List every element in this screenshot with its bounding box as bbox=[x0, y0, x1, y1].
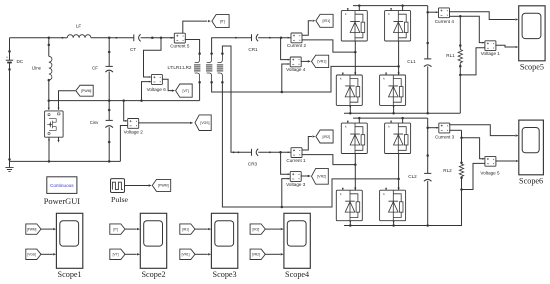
bridge2 DC- rail bbox=[349, 221, 351, 226]
wire winding1 bottom to mid wire bbox=[199, 82, 201, 100]
diode D3 bbox=[336, 73, 362, 106]
current measurement Current 5 bbox=[170, 33, 190, 48]
svg-text:LT:LR1:LR2: LT:LR1:LR2 bbox=[168, 65, 192, 70]
wire Voltage 4 - to return bbox=[282, 64, 290, 92]
wire [VR1] to Scope3 bbox=[195, 253, 208, 255]
voltage measurement Voltage 4 bbox=[286, 57, 306, 72]
wire Current 5 out to transformer winding 1 bbox=[185, 40, 200, 54]
diode D6 bbox=[385, 121, 411, 154]
svg-text:[VR1]: [VR1] bbox=[182, 252, 190, 256]
inductor LF bbox=[67, 24, 91, 38]
bridge1 DC- rail bbox=[349, 105, 351, 113]
svg-text:[VGS]: [VGS] bbox=[27, 252, 36, 256]
svg-text:[IR1]: [IR1] bbox=[323, 19, 331, 23]
capacitor CT bbox=[130, 34, 141, 52]
diode D4 bbox=[380, 73, 406, 106]
svg-text:Current 5: Current 5 bbox=[170, 43, 190, 48]
Goto tag [VR1] bbox=[312, 55, 329, 67]
diode D5 bbox=[341, 121, 367, 154]
wire Current 5 signal to [IT] bbox=[183, 21, 207, 33]
svg-text:CL1: CL1 bbox=[407, 59, 416, 64]
wire Current 2 signal to [IR1] bbox=[302, 21, 312, 36]
Goto tag [VR2] bbox=[312, 168, 329, 184]
voltage measurement Voltage 5 bbox=[480, 156, 500, 175]
svg-text:Voltage 4: Voltage 4 bbox=[286, 67, 306, 72]
Goto tag [IR2] bbox=[316, 130, 333, 143]
bridge1 right leg bbox=[398, 41, 400, 75]
Goto tag [VGS] bbox=[195, 115, 211, 131]
svg-text:Current 4: Current 4 bbox=[435, 19, 455, 24]
svg-text:[PWM]: [PWM] bbox=[81, 89, 91, 93]
svg-text:LF: LF bbox=[76, 24, 82, 29]
bridge1 left leg bbox=[354, 41, 356, 75]
svg-text:CR1: CR1 bbox=[248, 47, 258, 52]
wire node to Voltage 6 + bbox=[144, 38, 162, 77]
Goto tag [IT] bbox=[212, 15, 229, 28]
capacitor CF bbox=[92, 38, 113, 101]
Goto tag [IR1] bbox=[316, 14, 333, 27]
wire Current 4 signal to Scope5 in1 bbox=[449, 12, 515, 20]
svg-text:RL1: RL1 bbox=[446, 53, 455, 58]
DC source bbox=[6, 38, 24, 162]
wire Voltage 3 - to return bbox=[282, 179, 290, 207]
Scope4 bbox=[284, 213, 310, 279]
voltage measurement Voltage 3 bbox=[286, 172, 306, 187]
Goto tag [PWM] bbox=[152, 179, 170, 191]
wire winding2 bottom return to bridge1 right leg bbox=[212, 66, 399, 92]
Scope2 bbox=[140, 213, 166, 279]
wire Voltage 3 out to [VR2] bbox=[301, 175, 308, 177]
Pulse generator bbox=[111, 179, 129, 204]
Scope3 bbox=[211, 213, 237, 279]
wire node to Voltage 4 + bbox=[281, 38, 290, 60]
diode D7 bbox=[336, 188, 362, 221]
From tag [PWM] gate bbox=[76, 85, 93, 96]
wire winding3 top down to CR3 bbox=[222, 46, 251, 152]
svg-text:Scope6: Scope6 bbox=[519, 176, 543, 185]
svg-text:+: + bbox=[6, 55, 8, 59]
wire [VR2] to Scope4 bbox=[265, 253, 280, 255]
From tag [VT] bbox=[110, 249, 125, 259]
current measurement Current 4 bbox=[428, 8, 455, 24]
svg-text:[PWM]: [PWM] bbox=[158, 184, 169, 188]
svg-text:Scope2: Scope2 bbox=[141, 270, 165, 279]
Scope1 bbox=[56, 213, 82, 279]
svg-text:Pulse: Pulse bbox=[111, 195, 128, 204]
svg-text:[VGS]: [VGS] bbox=[200, 121, 209, 125]
svg-text:Current 1: Current 1 bbox=[286, 158, 306, 163]
From tag [IR1] bbox=[180, 224, 195, 234]
svg-text:PowerGUI: PowerGUI bbox=[44, 197, 80, 206]
resistor RL1 bbox=[446, 44, 462, 113]
svg-text:Continuous: Continuous bbox=[50, 183, 74, 188]
inductor Lline bbox=[32, 38, 52, 101]
svg-text:CL2: CL2 bbox=[408, 174, 417, 179]
wire winding3 bottom return to bridge2 right leg bbox=[222, 82, 398, 207]
diode D8 bbox=[380, 188, 406, 221]
wire Voltage 2 - to bottom wire bbox=[120, 126, 127, 162]
wire MOSFET source to bottom wire bbox=[48, 137, 50, 161]
MOSFET m stub bbox=[58, 137, 60, 140]
wire PWM tag to MOSFET gate bbox=[59, 91, 76, 110]
svg-text:[IT]: [IT] bbox=[113, 227, 118, 231]
svg-text:Lline: Lline bbox=[32, 66, 42, 71]
current measurement Current 3 bbox=[428, 123, 455, 139]
svg-text:Voltage 1: Voltage 1 bbox=[481, 51, 501, 56]
svg-text:[IR2]: [IR2] bbox=[253, 227, 260, 231]
From tag [IT] bbox=[110, 224, 125, 234]
wire [VGS] to Scope1 bbox=[41, 253, 53, 255]
wire Current 3 signal to Scope6 in1 bbox=[449, 125, 515, 136]
diode D2 bbox=[385, 8, 411, 41]
From tag [VR2] bbox=[250, 249, 265, 259]
From tag [IR2] bbox=[250, 224, 265, 234]
Goto tag [VT] bbox=[176, 84, 193, 97]
svg-text:Current 3: Current 3 bbox=[435, 134, 455, 139]
current measurement Current 1 bbox=[286, 148, 306, 163]
bridge1 DC+ rail bbox=[353, 5, 428, 7]
wire mid wire to Voltage 2 + bbox=[124, 101, 127, 121]
wire Current 4 out to RL1 and Voltage 1 + bbox=[449, 15, 460, 17]
From tag [PWM] bbox=[26, 224, 41, 234]
diode D1 bbox=[341, 8, 367, 41]
bridge2 DC+ rail bbox=[353, 117, 428, 119]
wire Current 3 out to RL2 and Voltage 5 + bbox=[449, 129, 461, 131]
svg-text:[PWM]: [PWM] bbox=[27, 227, 37, 231]
svg-text:Voltage 3: Voltage 3 bbox=[286, 182, 306, 187]
svg-text:Cinv: Cinv bbox=[90, 120, 99, 125]
svg-text:[VR2]: [VR2] bbox=[317, 175, 326, 179]
wire Voltage 1 - to RL1 bottom bbox=[460, 48, 485, 75]
svg-text:[VT]: [VT] bbox=[182, 89, 188, 93]
wire Current 1 signal to [IR2] bbox=[302, 137, 312, 151]
wire [PWM] to Scope1 bbox=[41, 228, 53, 230]
svg-text:Current 2: Current 2 bbox=[287, 43, 307, 48]
wire Voltage 6 - to mid wire bbox=[142, 82, 151, 101]
bridge2 left leg bbox=[354, 154, 356, 191]
resistor RL2 bbox=[443, 162, 463, 226]
capacitor CR1 bbox=[248, 34, 258, 52]
ground bbox=[5, 161, 13, 171]
voltage measurement Voltage 2 bbox=[124, 119, 144, 135]
Scope6 bbox=[519, 120, 544, 185]
capacitor CL2 bbox=[408, 118, 431, 225]
wire Pulse to [PWM] goto bbox=[125, 185, 149, 187]
svg-text:RL2: RL2 bbox=[443, 168, 452, 173]
svg-text:CT: CT bbox=[130, 47, 136, 52]
transformer LT:LR1:LR2 bbox=[168, 52, 224, 83]
wire drain into MOSFET bbox=[48, 101, 50, 110]
MOSFET block bbox=[45, 111, 64, 137]
svg-text:[VR2]: [VR2] bbox=[252, 252, 260, 256]
svg-text:Voltage 2: Voltage 2 bbox=[124, 130, 144, 135]
wire Voltage 5 - to RL2 bottom bbox=[462, 163, 485, 189]
svg-text:[VT]: [VT] bbox=[113, 252, 119, 256]
svg-text:Scope1: Scope1 bbox=[58, 270, 82, 279]
wire Current 1 out to bridge2 left leg bbox=[302, 155, 356, 165]
wire Current 2 out to bridge1 left leg bbox=[302, 40, 356, 52]
PowerGUI block bbox=[44, 177, 80, 206]
wire Voltage 4 out to [VR1] bbox=[301, 60, 308, 62]
capacitor Cinv bbox=[90, 101, 113, 162]
wire Voltage 5 out to Scope6 in2 bbox=[495, 160, 515, 162]
capacitor CL1 bbox=[407, 6, 431, 114]
wire CR1 to Current 2 bbox=[258, 37, 290, 39]
wire [IT] to Scope2 bbox=[125, 228, 137, 230]
svg-text:CR3: CR3 bbox=[248, 162, 258, 167]
voltage measurement Voltage 6 bbox=[147, 75, 167, 92]
svg-text:Voltage 5: Voltage 5 bbox=[480, 170, 500, 175]
wire Voltage 2 out to [VGS] bbox=[138, 122, 189, 124]
svg-text:Scope5: Scope5 bbox=[520, 62, 544, 71]
svg-text:[IR2]: [IR2] bbox=[323, 135, 331, 139]
From tag [VR1] bbox=[180, 249, 195, 259]
From tag [VGS] bbox=[26, 249, 41, 259]
wire Voltage 1 out to Scope5 in2 bbox=[495, 45, 515, 47]
capacitor CR3 bbox=[248, 149, 258, 167]
wire top rail from DC to LF bbox=[10, 37, 68, 39]
wire [VT] to Scope2 bbox=[125, 253, 137, 255]
wire LF to CT bbox=[91, 37, 134, 39]
bridge2 right leg bbox=[398, 154, 400, 191]
wire Voltage 6 out to [VT] bbox=[162, 79, 172, 90]
svg-text:DC: DC bbox=[16, 59, 23, 64]
wire node to Voltage 3 + bbox=[281, 152, 290, 174]
wire [IR1] to Scope3 bbox=[195, 228, 208, 230]
svg-text:Voltage 6: Voltage 6 bbox=[147, 87, 167, 92]
svg-text:Scope3: Scope3 bbox=[213, 270, 237, 279]
wire [IR2] to Scope4 bbox=[265, 228, 280, 230]
wire winding2 top to CR1 bbox=[212, 38, 252, 54]
svg-text:CF: CF bbox=[92, 66, 98, 71]
bottom wire (return) bbox=[10, 160, 121, 162]
voltage measurement Voltage 1 bbox=[481, 41, 501, 56]
current measurement Current 2 bbox=[287, 33, 307, 48]
svg-text:[IR1]: [IR1] bbox=[182, 227, 189, 231]
svg-text:[IT]: [IT] bbox=[220, 19, 225, 23]
node main mid wire bbox=[49, 100, 200, 102]
svg-text:Scope4: Scope4 bbox=[285, 270, 309, 279]
wire CT to Current 5 bbox=[141, 37, 175, 39]
Scope5 bbox=[519, 6, 545, 72]
svg-text:[VR1]: [VR1] bbox=[317, 60, 326, 64]
wire CR3 to Current 1 bbox=[258, 151, 290, 153]
